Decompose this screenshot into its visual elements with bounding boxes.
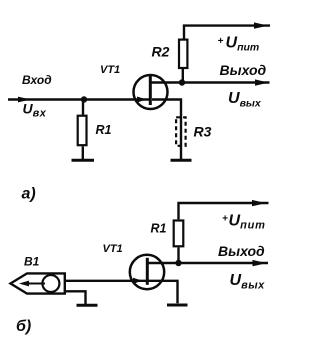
svg-text:В1: В1 [24, 255, 40, 269]
svg-text:R2: R2 [152, 44, 170, 60]
arrow: output (circuit b) [253, 260, 267, 266]
wire: B1 to gate of VT1 (circuit b) [65, 280, 148, 282]
wire: R1 top lead [82, 100, 84, 115]
arrow: input signal direction [18, 97, 31, 103]
arrow: +Uпит rail (circuit b) [252, 200, 266, 206]
svg-text:Uвых: Uвых [230, 272, 266, 292]
svg-text:а): а) [22, 186, 36, 203]
wire: source of VT1 to ground (circuit b) [147, 281, 177, 304]
wire: source of VT1 down through R3 to ground [152, 100, 181, 160]
ground (below R3) [171, 159, 192, 162]
svg-text:VT1: VT1 [103, 243, 123, 255]
resistor R1 [78, 116, 87, 146]
wire: R1 bottom lead [82, 146, 84, 160]
sensor B1 (pickup) [11, 273, 65, 293]
svg-text:R1: R1 [96, 123, 112, 137]
wire: output (Выход, circuit a) [182, 81, 270, 83]
wire: drain of VT1 to output node (circuit b) [147, 262, 178, 264]
svg-text:Uпит: Uпит [229, 213, 266, 232]
svg-text:R1: R1 [151, 222, 167, 236]
transistor VT1 (circuit a) [134, 75, 168, 109]
svg-text:VT1: VT1 [100, 64, 120, 76]
node: gate / R1 junction [81, 96, 87, 102]
wire: input (Вход) to gate of VT1 [8, 98, 151, 100]
svg-text:Uвых: Uвых [228, 90, 262, 110]
svg-text:б): б) [16, 318, 31, 335]
wire: R1 top lead and +Uпит rail (circuit b) [179, 203, 269, 219]
transistor VT1 (circuit b) [130, 255, 164, 289]
svg-text:Uвх: Uвх [23, 101, 47, 120]
node: drain / R1 / output junction (circuit b) [175, 260, 181, 266]
svg-text:+: + [222, 214, 228, 225]
arrow: +Uпит rail [254, 22, 268, 28]
svg-text:Вход: Вход [22, 73, 52, 87]
resistor R1 (circuit b) [174, 221, 184, 247]
resistor R3 (dashed, optional) [176, 117, 186, 146]
wire: drain of VT1 to output node [151, 81, 182, 83]
wire: R2 bottom lead [182, 69, 184, 83]
wire: B1 lower terminal to ground [65, 291, 86, 304]
ground (below R1) [72, 159, 95, 162]
svg-text:Uпит: Uпит [226, 34, 260, 53]
svg-text:+: + [218, 36, 224, 47]
wire: R1 bottom lead (circuit b) [177, 247, 179, 263]
svg-text:Выход: Выход [218, 243, 265, 259]
node: drain / R2 / output junction [179, 79, 185, 85]
ground (below source, circuit b) [167, 304, 188, 307]
ground (below B1) [77, 304, 98, 307]
wire: output (Выход, circuit b) [179, 262, 269, 264]
svg-text:R3: R3 [194, 124, 212, 140]
arrow: output (circuit a) [255, 79, 269, 85]
resistor R2 [179, 40, 187, 68]
wire: R2 top lead and +Uпит rail [184, 26, 270, 39]
svg-text:Выход: Выход [220, 62, 267, 78]
